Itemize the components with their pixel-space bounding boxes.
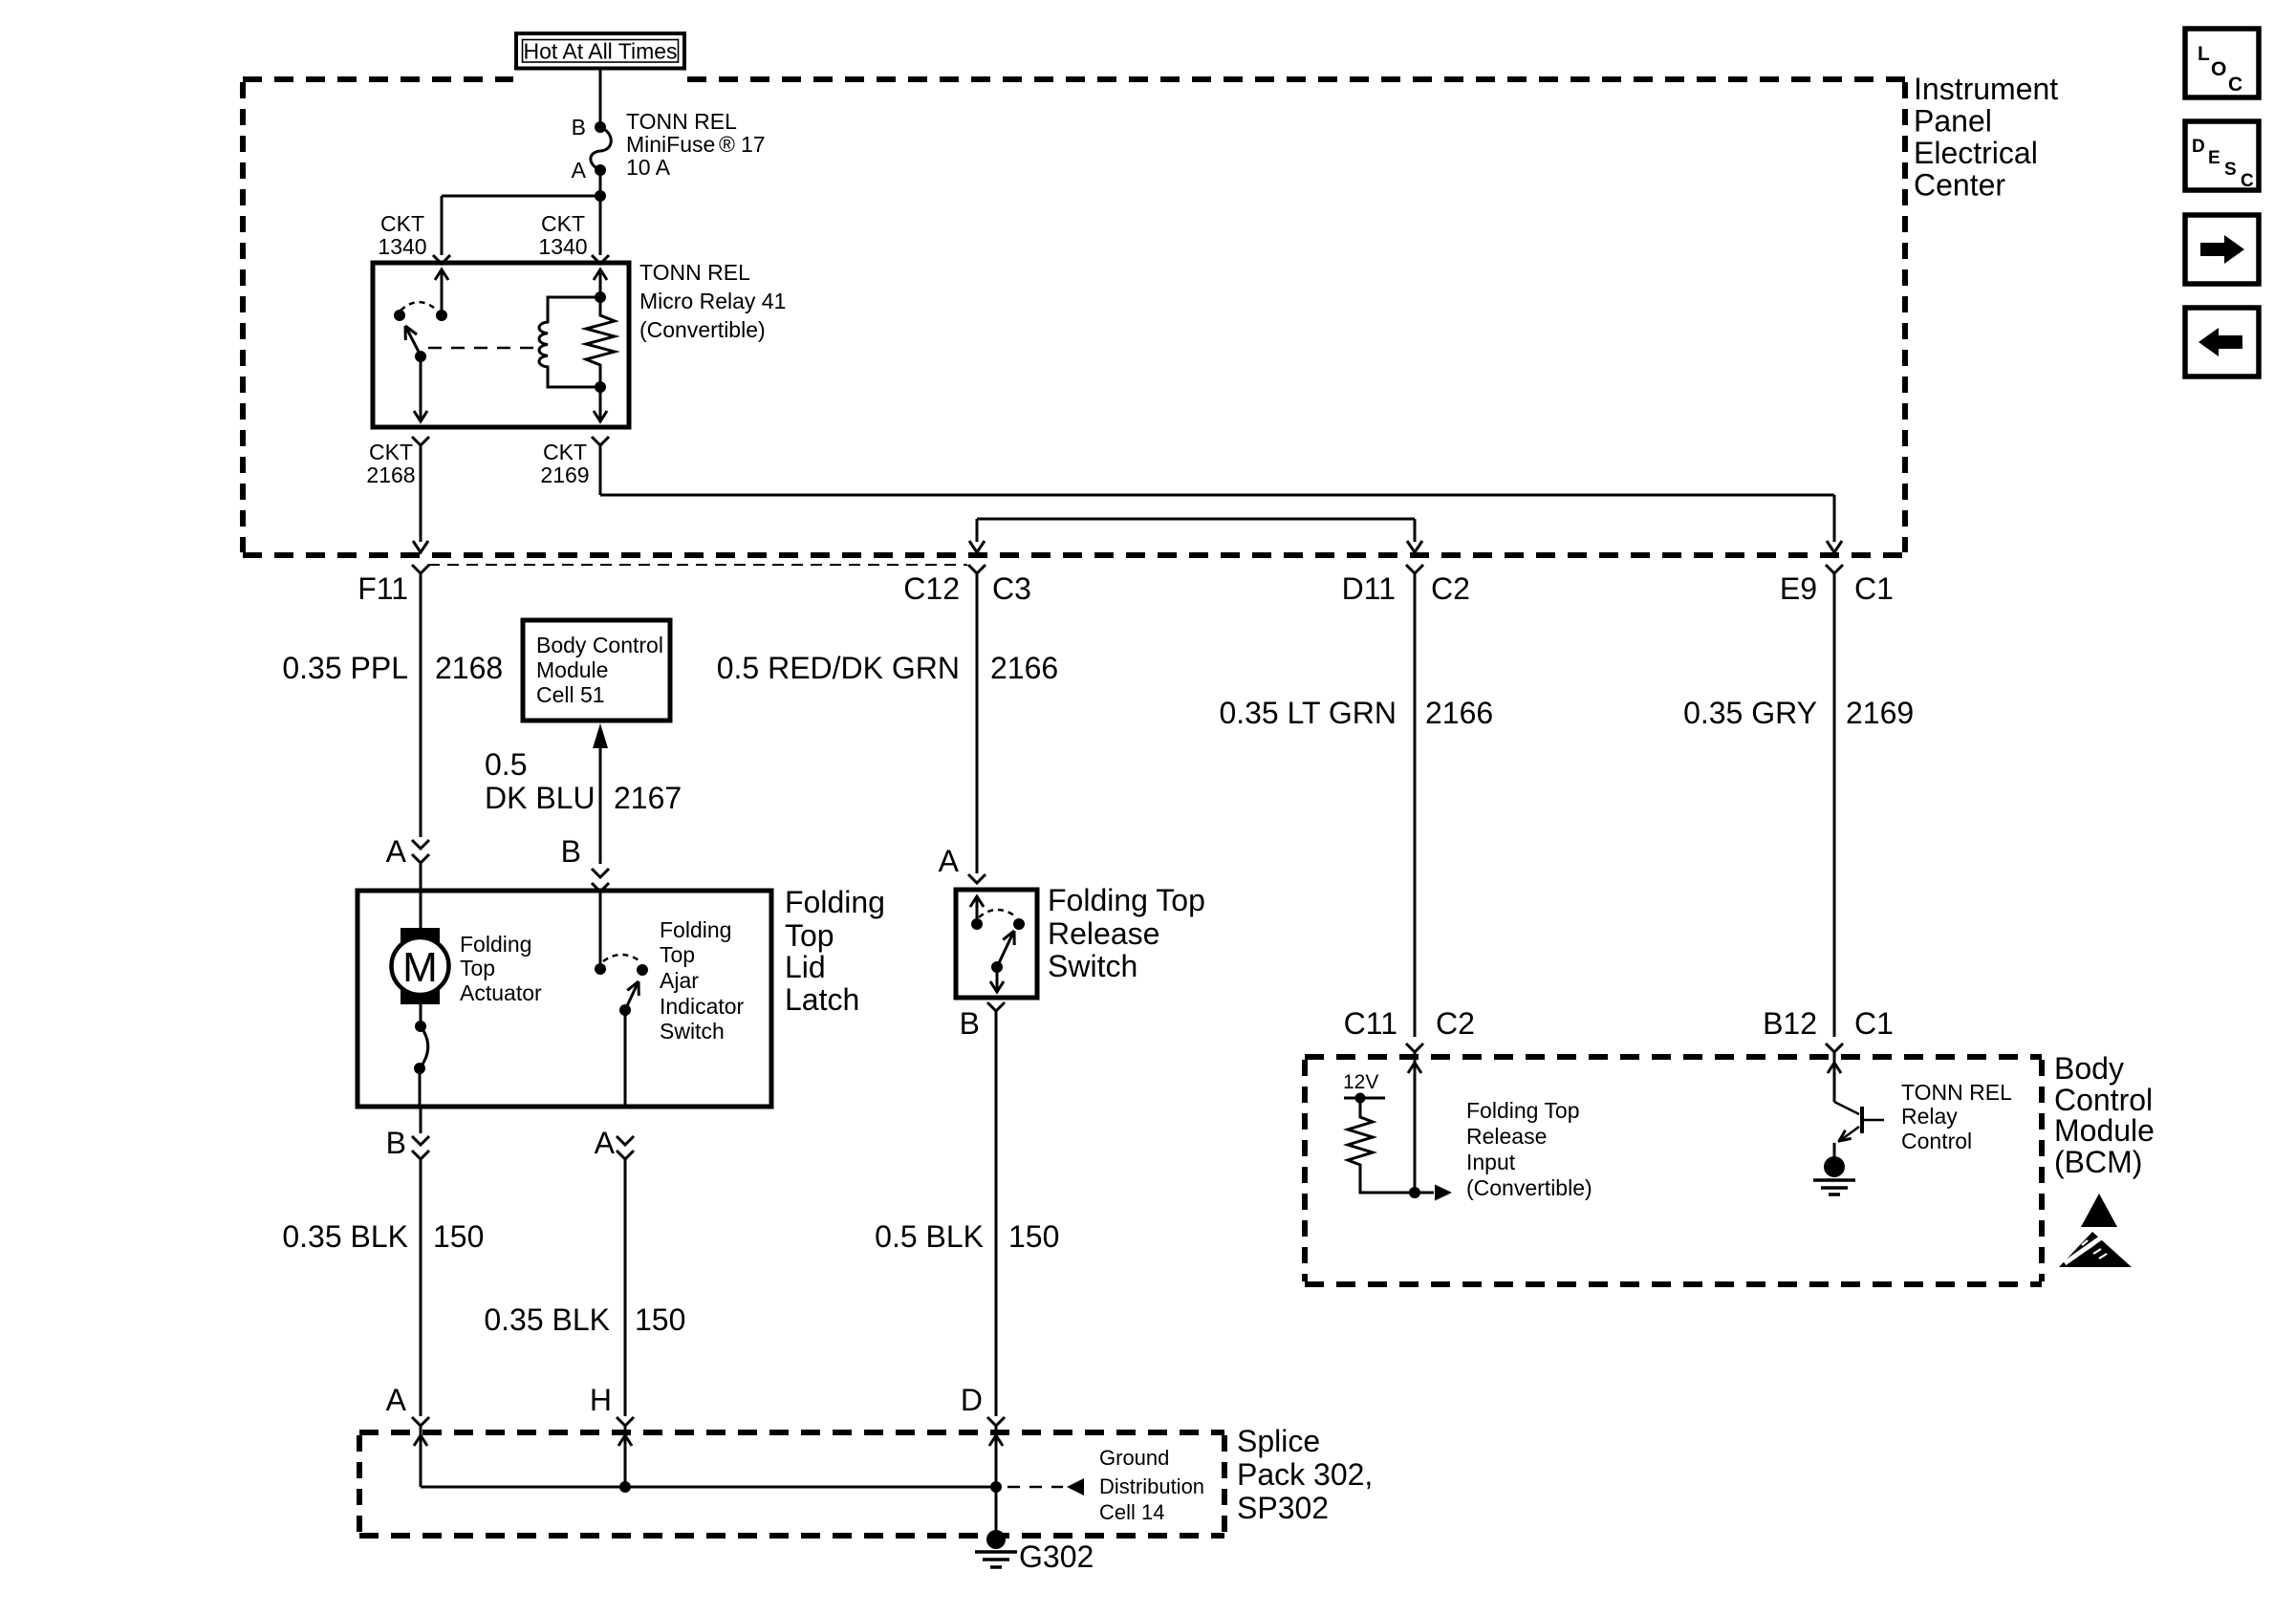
svg-text:A: A (572, 158, 587, 183)
svg-text:0.35 LT GRN: 0.35 LT GRN (1219, 696, 1397, 730)
svg-text:C1: C1 (1854, 571, 1894, 606)
svg-text:F11: F11 (357, 571, 408, 606)
svg-text:Top: Top (785, 918, 834, 953)
svg-text:0.5 RED/DK GRN: 0.5 RED/DK GRN (717, 651, 960, 685)
svg-text:Control: Control (2054, 1083, 2153, 1117)
svg-text:Control: Control (1901, 1129, 1972, 1153)
svg-text:H: H (590, 1383, 612, 1417)
svg-text:®: ® (719, 132, 735, 157)
svg-text:2166: 2166 (1425, 696, 1493, 730)
svg-text:CKT: CKT (369, 440, 413, 464)
svg-text:2168: 2168 (435, 651, 503, 685)
svg-text:A: A (386, 1383, 407, 1417)
svg-text:2169: 2169 (1846, 696, 1914, 730)
svg-text:D11: D11 (1342, 571, 1396, 606)
svg-text:2167: 2167 (614, 781, 682, 815)
svg-text:M: M (402, 944, 438, 991)
svg-text:150: 150 (1008, 1219, 1059, 1254)
svg-text:B: B (572, 115, 586, 140)
svg-text:Cell 14: Cell 14 (1099, 1500, 1164, 1524)
svg-text:D: D (2192, 137, 2205, 157)
svg-text:Relay: Relay (1901, 1104, 1958, 1129)
svg-text:Cell 51: Cell 51 (536, 682, 605, 707)
svg-text:L: L (2198, 43, 2210, 65)
svg-text:C12: C12 (903, 571, 960, 606)
svg-text:0.35 BLK: 0.35 BLK (484, 1302, 610, 1337)
svg-text:A: A (939, 844, 960, 878)
svg-text:Splice: Splice (1237, 1424, 1320, 1458)
svg-text:0.5: 0.5 (485, 747, 527, 782)
svg-text:B: B (561, 834, 581, 869)
svg-text:Micro Relay 41: Micro Relay 41 (639, 289, 786, 313)
svg-text:Distribution: Distribution (1099, 1474, 1204, 1498)
svg-text:CKT: CKT (541, 211, 585, 236)
svg-text:Switch: Switch (660, 1019, 725, 1044)
svg-text:A: A (595, 1126, 616, 1160)
svg-text:(Convertible): (Convertible) (639, 317, 766, 342)
svg-text:CKT: CKT (380, 211, 424, 236)
svg-text:Release: Release (1048, 916, 1159, 951)
svg-text:E: E (2208, 148, 2220, 168)
svg-text:Folding: Folding (460, 932, 531, 957)
svg-text:1340: 1340 (378, 234, 426, 259)
svg-text:Indicator: Indicator (660, 994, 745, 1019)
svg-text:12V: 12V (1343, 1071, 1378, 1093)
svg-text:TONN REL: TONN REL (639, 260, 750, 285)
svg-text:C: C (2241, 171, 2254, 191)
svg-text:0.35 PPL: 0.35 PPL (282, 651, 408, 685)
svg-text:S: S (2224, 160, 2237, 180)
svg-text:Body Control: Body Control (536, 633, 663, 657)
svg-text:0.35 GRY: 0.35 GRY (1683, 696, 1817, 730)
svg-text:2166: 2166 (990, 651, 1058, 685)
svg-text:Release: Release (1466, 1124, 1547, 1149)
svg-text:Folding: Folding (660, 917, 731, 942)
svg-text:E9: E9 (1780, 571, 1817, 606)
svg-text:0.35 BLK: 0.35 BLK (282, 1219, 408, 1254)
svg-text:Lid: Lid (785, 950, 826, 984)
svg-text:TONN REL: TONN REL (626, 109, 737, 134)
svg-text:O: O (2211, 58, 2226, 80)
svg-text:17: 17 (741, 132, 766, 157)
svg-text:Ajar: Ajar (660, 968, 699, 993)
svg-text:C3: C3 (992, 571, 1031, 606)
svg-text:0.5 BLK: 0.5 BLK (875, 1219, 984, 1254)
svg-text:Module: Module (536, 657, 608, 682)
svg-text:Actuator: Actuator (460, 980, 542, 1005)
svg-text:C2: C2 (1436, 1006, 1475, 1041)
svg-text:Top: Top (460, 956, 495, 980)
svg-text:2169: 2169 (540, 463, 589, 487)
svg-text:C2: C2 (1431, 571, 1470, 606)
svg-text:Pack 302,: Pack 302, (1237, 1457, 1373, 1492)
svg-text:Folding Top: Folding Top (1048, 883, 1205, 917)
svg-text:SP302: SP302 (1237, 1491, 1329, 1525)
svg-text:Electrical: Electrical (1914, 136, 2038, 170)
svg-text:2168: 2168 (366, 463, 415, 487)
svg-text:CKT: CKT (543, 440, 587, 464)
svg-text:Top: Top (660, 942, 695, 967)
svg-text:150: 150 (433, 1219, 484, 1254)
svg-text:Hot At All Times: Hot At All Times (523, 39, 677, 64)
svg-text:DK BLU: DK BLU (485, 781, 596, 815)
svg-text:(BCM): (BCM) (2054, 1145, 2142, 1179)
svg-text:Folding: Folding (785, 885, 885, 919)
svg-text:Switch: Switch (1048, 949, 1137, 983)
svg-text:Folding Top: Folding Top (1466, 1098, 1580, 1123)
svg-text:150: 150 (635, 1302, 685, 1337)
svg-text:C: C (2228, 74, 2242, 96)
svg-text:B: B (960, 1006, 980, 1041)
svg-text:(Convertible): (Convertible) (1466, 1175, 1592, 1200)
svg-text:Body: Body (2054, 1051, 2124, 1086)
svg-text:C11: C11 (1344, 1006, 1397, 1041)
svg-text:A: A (386, 834, 407, 869)
svg-text:Ground: Ground (1099, 1446, 1169, 1470)
svg-text:Module: Module (2054, 1113, 2155, 1148)
svg-text:D: D (961, 1383, 983, 1417)
svg-text:MiniFuse: MiniFuse (626, 132, 715, 157)
svg-text:B: B (386, 1126, 406, 1160)
svg-text:Panel: Panel (1914, 104, 1992, 139)
svg-text:C1: C1 (1854, 1006, 1894, 1041)
svg-text:Input: Input (1466, 1150, 1516, 1174)
svg-text:1340: 1340 (538, 234, 587, 259)
svg-text:B12: B12 (1763, 1006, 1817, 1041)
svg-text:TONN REL: TONN REL (1901, 1080, 2012, 1105)
svg-text:G302: G302 (1019, 1539, 1094, 1574)
svg-text:Center: Center (1914, 168, 2005, 203)
svg-text:Instrument: Instrument (1914, 72, 2058, 106)
svg-text:10 A: 10 A (626, 155, 671, 180)
svg-text:Latch: Latch (785, 982, 859, 1017)
